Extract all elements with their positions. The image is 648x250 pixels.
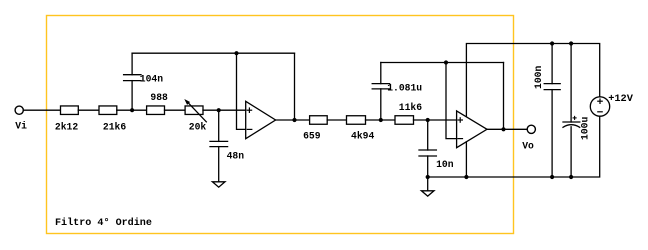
- svg-text:20k: 20k: [189, 121, 207, 132]
- wire U2 output up to feedback rail: [503, 63, 505, 130]
- wire U2 positive supply pin to +12V rail: [466, 44, 599, 117]
- capacitor C3 1.081u: [372, 63, 389, 121]
- wire ground stub GND2: [427, 177, 429, 191]
- capacitor C6 100u electrolytic: [563, 44, 580, 178]
- wire U2 output to Vo: [487, 128, 527, 130]
- junction feedback tee U2: [444, 60, 448, 64]
- node B junction: [217, 108, 221, 112]
- node A junction: [130, 108, 134, 112]
- wire U2 feedback rail: [381, 62, 504, 64]
- junction U2 output node: [501, 127, 505, 131]
- resistor R6 4k94: [347, 116, 366, 125]
- wire R2 to R3 through node A: [117, 109, 147, 111]
- svg-text:Vo: Vo: [522, 140, 534, 151]
- wire R6 to R7 through node C: [366, 119, 396, 121]
- resistor R1 2k12: [61, 106, 79, 115]
- svg-text:48n: 48n: [227, 150, 245, 161]
- resistor R7 11k6: [395, 116, 414, 125]
- capacitor C2 48n: [210, 110, 228, 182]
- capacitor C1 104n: [124, 53, 141, 110]
- junction U2 negative supply on ground rail: [464, 175, 468, 179]
- svg-text:659: 659: [303, 130, 321, 141]
- wire U1 feedback rail: [132, 52, 294, 54]
- wire feedback down to U2 inverting input: [446, 63, 457, 139]
- svg-text:Filtro 4° Ordine: Filtro 4° Ordine: [55, 217, 152, 229]
- svg-text:21k6: 21k6: [103, 122, 126, 133]
- wire R4 to op-amp U1 non-inverting input, node B: [203, 109, 246, 111]
- junction 100u on ground rail: [569, 175, 573, 179]
- svg-text:10n: 10n: [436, 159, 454, 170]
- capacitor C5 100n: [544, 44, 560, 178]
- svg-text:100u: 100u: [579, 116, 590, 139]
- svg-text:+12V: +12V: [608, 93, 634, 105]
- node C junction: [379, 118, 383, 122]
- wire Vi to R1: [23, 109, 60, 111]
- svg-text:1.081u: 1.081u: [387, 82, 422, 93]
- terminal Vo: [527, 125, 535, 133]
- wire R7 to op-amp U2 non-inverting input, node D: [414, 119, 457, 121]
- resistor R5 659: [310, 116, 328, 125]
- trimmer R4 20k: [184, 99, 206, 122]
- wire R5 to R6: [327, 119, 346, 121]
- wire U1 output to R5: [276, 119, 310, 121]
- svg-text:4k94: 4k94: [351, 130, 374, 141]
- resistor R3 988: [147, 106, 165, 115]
- junction 100n cap on +12V rail: [550, 41, 554, 45]
- wire R3 to R4: [165, 109, 186, 111]
- wire R1 to R2: [78, 109, 99, 111]
- node D junction: [426, 118, 430, 122]
- wire U1 output up to feedback rail: [294, 53, 296, 120]
- svg-text:11k6: 11k6: [399, 102, 422, 113]
- junction U1 output node: [292, 118, 296, 122]
- capacitor C4 10n: [419, 120, 436, 177]
- wire ground rail: [428, 116, 600, 177]
- voltage source V1 +12V: [590, 97, 609, 116]
- op-amp U1: [246, 101, 276, 138]
- svg-text:Vi: Vi: [15, 120, 27, 131]
- svg-text:988: 988: [150, 92, 168, 103]
- ground GND1: [212, 182, 225, 187]
- svg-text:2k12: 2k12: [55, 121, 78, 132]
- junction 100n on ground rail: [550, 175, 554, 179]
- wire feedback down to U1 inverting input: [237, 53, 246, 129]
- junction feedback tee U1: [234, 51, 238, 55]
- terminal Vi: [15, 106, 23, 114]
- op-amp U2: [457, 111, 487, 148]
- junction 100u cap on +12V rail: [569, 41, 573, 45]
- ground GND2: [421, 191, 434, 196]
- svg-text:104n: 104n: [140, 74, 163, 85]
- wire U2 negative supply pin down to ground rail: [465, 142, 467, 177]
- resistor R2 21k6: [99, 106, 117, 115]
- svg-text:100n: 100n: [533, 65, 544, 88]
- junction 10n to ground rail: [426, 175, 430, 179]
